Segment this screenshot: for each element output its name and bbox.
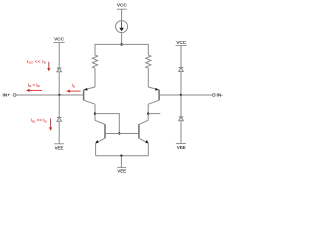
svg-text:VEE: VEE (54, 146, 63, 151)
wire D1 to VEE left (58, 121, 60, 144)
VCC supply left (53, 37, 64, 43)
resistor R1 (92, 55, 97, 68)
wire Q1 collector down (94, 104, 96, 120)
wire D4 to VEE right (180, 121, 182, 144)
transistor Q4 (NPN mirror right) (139, 120, 149, 143)
wire node to terminal IN- (181, 94, 212, 96)
resistor R2 (146, 55, 151, 68)
wire top rail (95, 44, 148, 55)
node Q1 collector junction (94, 112, 96, 114)
terminal IN+ (3, 92, 17, 97)
node base-rail junction (118, 132, 120, 134)
wire D2 to node IN+ (58, 72, 60, 95)
VEE supply right (176, 144, 186, 150)
node Q2 collector junction (147, 112, 149, 114)
wire R2 to Q2 emitter (147, 68, 149, 87)
wire R1 to Q1 emitter (94, 68, 96, 87)
svg-text:IN-: IN- (217, 92, 224, 97)
wire D3 to node IN- (180, 71, 182, 95)
wire Q2 collector down (147, 104, 149, 120)
wire output stub (148, 113, 160, 115)
wire collector-to-base tie (95, 114, 119, 134)
wire right VCC to D3 (180, 45, 182, 67)
transistor Q3 (NPN mirror left) (95, 120, 105, 143)
wire bottom rail (96, 155, 149, 157)
svg-text:IB ≈ IB: IB ≈ IB (28, 82, 40, 88)
node rail-top junction (120, 43, 123, 46)
node IN- junction (180, 94, 182, 96)
diode D3 (179, 68, 184, 72)
transistor Q1 (PNP left) (84, 87, 95, 104)
wire node to D4 (180, 95, 182, 117)
VCC supply right (176, 40, 187, 46)
wire Q2 base (159, 94, 181, 96)
current source I1 (116, 21, 128, 33)
svg-text:ID2 << IB: ID2 << IB (27, 59, 47, 65)
svg-text:VEE: VEE (117, 169, 126, 174)
node bottom rail junction (120, 155, 122, 157)
wire mirror base rail (105, 133, 139, 135)
VEE supply left (54, 144, 64, 151)
wire current source to rail (121, 33, 123, 45)
node IN+ junction (58, 94, 60, 96)
diode D2 (57, 68, 62, 72)
wire node to D1 (58, 95, 60, 117)
wire VCC to current source (121, 9, 123, 20)
svg-text:ID1 << IB: ID1 << IB (31, 118, 48, 124)
svg-text:VCC: VCC (54, 37, 64, 43)
wire left VCC to D2 (58, 43, 60, 69)
svg-text:VCC: VCC (117, 3, 127, 9)
wire Q1 base (59, 94, 83, 96)
annotation ID1 << IB (31, 118, 53, 131)
annotation ID2 << IB (27, 59, 50, 72)
wire IN+ to node (16, 94, 59, 96)
wire Q3 emitter down (95, 143, 97, 156)
wire Q4 emitter down (147, 143, 149, 156)
svg-text:IN+: IN+ (3, 92, 11, 97)
annotation IB (66, 83, 80, 93)
VEE supply center (117, 167, 126, 173)
VCC supply top center (117, 3, 127, 10)
diode D1 (57, 117, 62, 121)
annotation IB ~ IB (26, 82, 42, 92)
wire to VEE center (120, 156, 122, 168)
transistor Q2 (PNP right) (148, 87, 159, 104)
diode D4 (179, 117, 184, 121)
terminal IN- (212, 92, 223, 97)
svg-text:IB: IB (72, 83, 76, 89)
svg-text:VEE: VEE (177, 145, 186, 150)
